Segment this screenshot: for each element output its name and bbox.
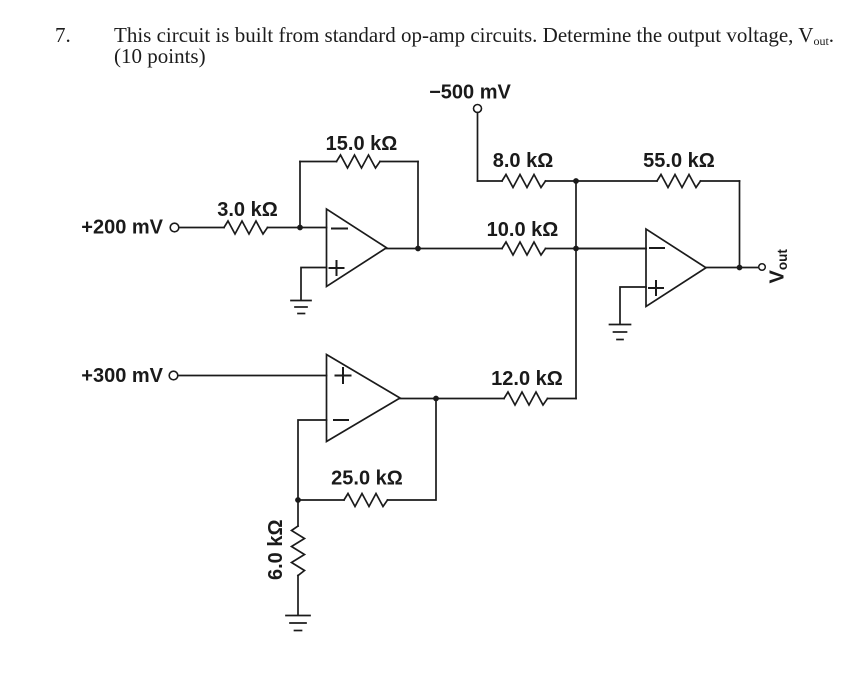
U3 plus sign (649, 281, 663, 295)
svg-text:55.0 kΩ: 55.0 kΩ (643, 150, 715, 172)
svg-text:25.0 kΩ: 25.0 kΩ (331, 468, 403, 490)
wire R 6.0k to ground (297, 576, 299, 616)
resistor 10.0 kΩ (502, 242, 546, 255)
label 12.0 kΩ (491, 368, 563, 390)
feedback node junction dot at 8k (573, 178, 579, 184)
op-amp U3 (646, 229, 706, 307)
U1 plus sign (330, 261, 344, 275)
wire R 25.0k up to U2 output (388, 399, 437, 501)
op-amp U2 (327, 355, 401, 442)
wire feedback top right segment (380, 161, 418, 163)
source +300 mV terminal (169, 371, 178, 380)
resistor 6.0 kΩ (292, 526, 305, 576)
wire feedback right vertical down to U1 output (417, 162, 419, 249)
label 25.0 kΩ (331, 468, 403, 490)
ground U1 (291, 301, 311, 314)
svg-text:10.0 kΩ: 10.0 kΩ (487, 219, 559, 241)
U3 output junction dot (737, 265, 743, 271)
problem number 7. (55, 24, 71, 48)
source +300 mV label (81, 365, 163, 387)
wire feedback left vertical up from node A (299, 162, 301, 228)
svg-text:8.0 kΩ: 8.0 kΩ (493, 150, 554, 172)
label 15.0 kΩ (326, 133, 398, 155)
summing node vertical wire (575, 181, 577, 399)
wire node B to R 25.0k (298, 499, 344, 501)
U2 plus sign (336, 368, 351, 383)
resistor 8.0 kΩ (502, 175, 546, 188)
U2 minus sign (334, 419, 348, 421)
summing node junction dot at 10k (573, 246, 579, 252)
Vout terminal (759, 264, 766, 271)
svg-text:12.0 kΩ: 12.0 kΩ (491, 368, 563, 390)
wire +300mV to U2 noninverting input (179, 375, 327, 377)
U3 minus sign (650, 247, 664, 249)
label 10.0 kΩ (487, 219, 559, 241)
wire R 8.0k to feedback node (546, 180, 658, 182)
ground U3 (610, 325, 631, 340)
wire feedback top left segment (300, 161, 337, 163)
svg-text:15.0 kΩ: 15.0 kΩ (326, 133, 398, 155)
U1 minus sign (332, 228, 347, 230)
ground node B (286, 616, 310, 631)
svg-text:+200 mV: +200 mV (81, 217, 163, 239)
feedback node B junction dot (295, 497, 301, 503)
op-amp U1 (327, 209, 387, 287)
wire U3 noninverting input to ground (620, 287, 646, 324)
svg-text:Vout: Vout (767, 249, 791, 284)
label 55.0 kΩ (643, 150, 715, 172)
wire node B down to R 6.0k (297, 500, 299, 526)
label Vout (767, 249, 791, 284)
source -500 mV label (429, 82, 511, 104)
problem statement line 2 (114, 45, 206, 69)
label 8.0 kΩ (493, 150, 554, 172)
wire -500mV down (477, 113, 479, 182)
label 6.0 kΩ (265, 519, 287, 580)
wire R 12.0k to summing node vertical (548, 398, 577, 400)
source -500 mV terminal (474, 105, 482, 113)
wire summing node to U3 inverting input (576, 248, 646, 250)
source +200 mV label (81, 217, 163, 239)
resistor 25.0 kΩ (344, 494, 388, 507)
svg-text:+300 mV: +300 mV (81, 365, 163, 387)
resistor 15.0 kΩ (337, 155, 381, 168)
resistor 3.0 kΩ (224, 221, 268, 234)
U2 output junction dot (433, 396, 439, 402)
U1 output junction dot (415, 246, 421, 252)
svg-text:3.0 kΩ: 3.0 kΩ (217, 199, 278, 221)
wire U2 inverting input down to feedback node (298, 420, 327, 500)
wire R 3.0k to U1 inverting input (268, 227, 327, 229)
wire U2 output to R 12.0k (400, 398, 504, 400)
resistor 55.0 kΩ (657, 175, 701, 188)
wire U1 noninverting input to ground (301, 268, 327, 301)
wire -500mV to R 8.0k (478, 180, 503, 182)
svg-text:6.0 kΩ: 6.0 kΩ (265, 519, 287, 580)
source +200 mV terminal (170, 223, 179, 232)
wire U3 output (706, 267, 758, 269)
node A junction dot (297, 225, 303, 231)
wire R 10.0k to summing node (546, 248, 647, 250)
wire R 55.0k to output corner (701, 180, 740, 182)
wire feedback down to U3 output (739, 181, 741, 268)
wire U1 output to R 10.0k (387, 248, 503, 250)
svg-text:−500 mV: −500 mV (429, 82, 511, 104)
resistor 12.0 kΩ (504, 392, 548, 405)
label 3.0 kΩ (217, 199, 278, 221)
problem statement line 1 (114, 24, 834, 51)
wire +200mV to R 3.0k (180, 227, 225, 229)
